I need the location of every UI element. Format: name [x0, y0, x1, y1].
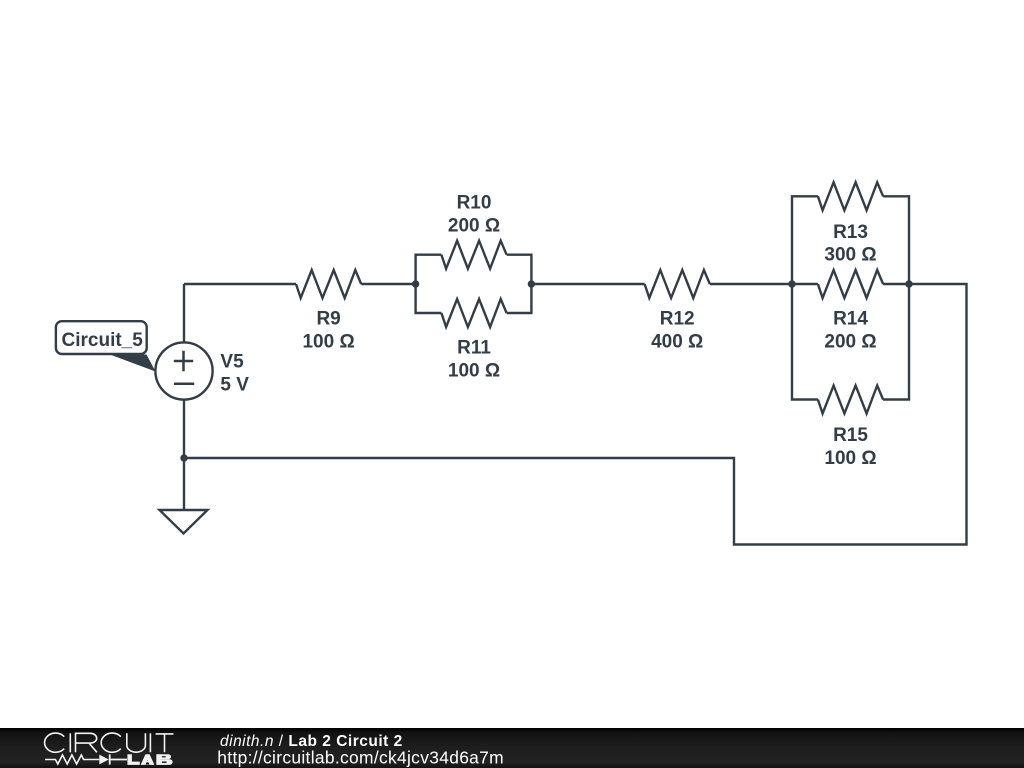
wire R9 to node A [361, 283, 415, 285]
svg-text:100 Ω: 100 Ω [824, 448, 876, 469]
resistor R14 [818, 270, 883, 298]
svg-text:V5: V5 [220, 351, 244, 372]
wire node B to R12 [531, 283, 644, 285]
wire ground stem [183, 458, 185, 510]
svg-text:R10: R10 [457, 193, 492, 214]
svg-text:R15: R15 [833, 425, 868, 446]
CircuitLab logo CIRCUIT letters [45, 733, 174, 752]
resistor R9 [296, 270, 361, 298]
svg-text:5 V: 5 V [220, 375, 249, 396]
resistor R15 [818, 386, 883, 414]
ground [160, 510, 208, 534]
svg-text:R12: R12 [660, 309, 695, 330]
junction ground node [180, 454, 187, 461]
svg-text:R11: R11 [457, 338, 491, 359]
wire R10/R11 right loop [507, 255, 532, 313]
svg-text:100 Ω: 100 Ω [302, 332, 354, 353]
resistor R13 [818, 182, 883, 210]
resistor R10 [441, 241, 506, 269]
svg-text:400 Ω: 400 Ω [651, 332, 703, 353]
V5 plus sign [174, 351, 193, 371]
CircuitLab logo resistor glyph [45, 755, 99, 764]
junction node A [412, 280, 419, 287]
footer bar [0, 728, 1024, 768]
V5 minus sign [174, 383, 194, 386]
CircuitLab logo LAB letters [127, 754, 172, 765]
junction node D [905, 280, 912, 287]
junction node C [788, 280, 795, 287]
svg-text:300 Ω: 300 Ω [824, 245, 876, 266]
callout box Circuit_5 [56, 321, 147, 354]
resistor R12 [645, 270, 710, 298]
resistor R11 [441, 299, 506, 327]
voltage source V5 circle [155, 342, 212, 399]
svg-text:200 Ω: 200 Ω [824, 332, 876, 353]
svg-text:R14: R14 [833, 309, 868, 330]
junction node B [528, 280, 535, 287]
CircuitLab logo diode glyph [99, 755, 109, 765]
wire node D to right corner and bottom return to ground node [184, 284, 967, 545]
wire R13/R15 left loop [792, 196, 818, 399]
wire V5 top stem [183, 284, 185, 343]
wire R13/R15 right loop [883, 196, 909, 399]
svg-text:http://circuitlab.com/ck4jcv34: http://circuitlab.com/ck4jcv34d6a7m [217, 748, 504, 768]
svg-text:200 Ω: 200 Ω [448, 216, 500, 237]
wire node C to R14 [792, 283, 818, 285]
svg-text:R13: R13 [833, 222, 868, 243]
wire R14 to node D [883, 283, 909, 285]
svg-text:R9: R9 [316, 309, 340, 330]
wire R12 to node C [710, 283, 792, 285]
callout tail [110, 355, 156, 372]
svg-text:100 Ω: 100 Ω [448, 361, 500, 382]
svg-text:Circuit_5: Circuit_5 [62, 330, 144, 351]
wire main segment V5 to R9 [184, 283, 296, 285]
wire R10/R11 left loop [416, 255, 442, 313]
wire V5 bottom stem [183, 400, 185, 459]
